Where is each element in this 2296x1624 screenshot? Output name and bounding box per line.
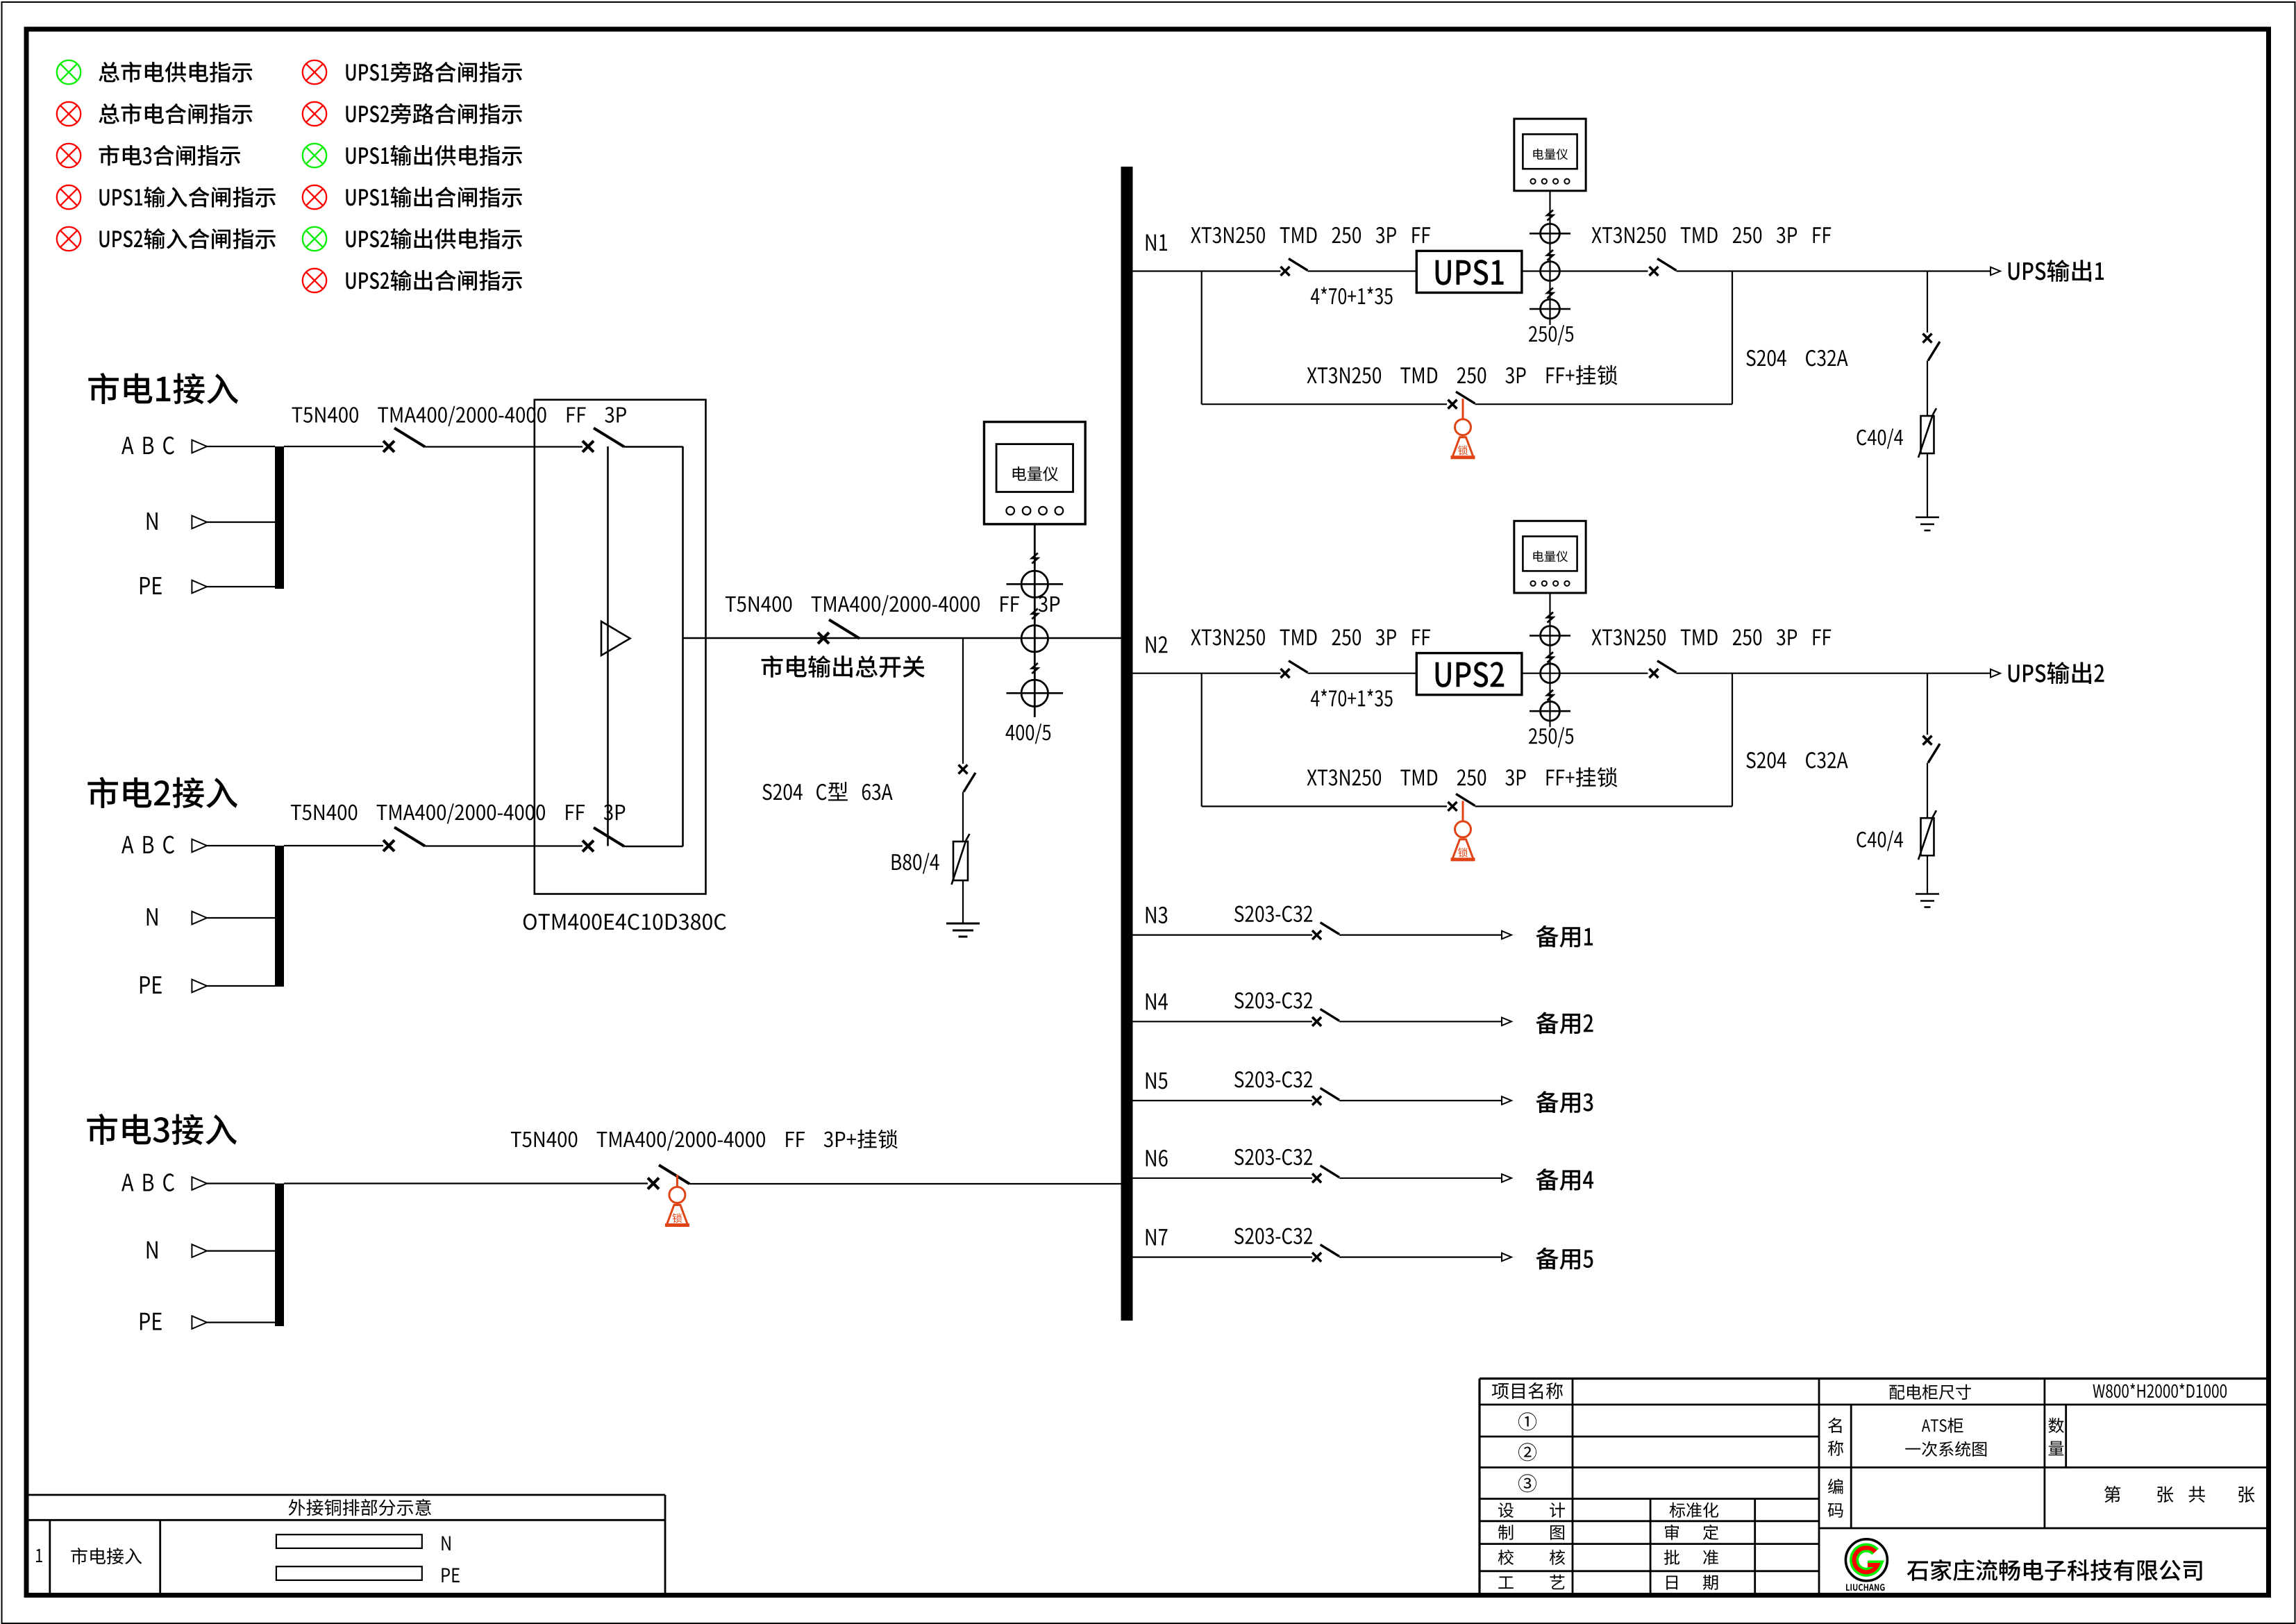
label 一次系统图 [1905, 1441, 1986, 1457]
label N [147, 908, 158, 926]
feeder arrow (N5) [1502, 1096, 1511, 1105]
wire junction to SPD (N1) [1927, 271, 1928, 333]
title 市电3接入 [87, 1114, 237, 1145]
wire N [207, 521, 275, 523]
wire QF3 to main busbar [689, 1183, 1121, 1184]
wire SPD to varistor (N2) [1927, 763, 1928, 819]
label 400/5 [1006, 723, 1051, 744]
feeder arrow (N6) [1502, 1174, 1511, 1182]
SPD breaker (S204 C 63A) [959, 765, 968, 774]
label XT3N250 TMD 250 3P FF (N1 input) [1191, 227, 1430, 244]
wire UPS box to output breaker (N1) [1522, 270, 1648, 271]
label 审定 [1665, 1525, 1679, 1540]
wire output breaker to arrow (N2) [1677, 673, 1992, 674]
padlock symbol (N1 bypass) [1462, 399, 1464, 419]
label N [147, 512, 158, 530]
feeder arrow (N7) [1502, 1253, 1511, 1262]
breaker S203-C32 (N4) [1312, 1017, 1321, 1026]
CT 250/5 bottom (N1) [1541, 299, 1560, 319]
feeder N7 [1146, 1229, 1168, 1246]
breaker S203-C32 (N6) [1312, 1173, 1321, 1182]
CT 400/5 top [1021, 571, 1048, 597]
ATS pole 2 contact (bottom) [583, 841, 594, 852]
wire junction to SPD (N2) [1927, 673, 1928, 735]
title 市电2接入 [87, 777, 237, 808]
bypass wire down (N1) [1201, 271, 1203, 405]
wire busbar to breaker (N4) [1133, 1021, 1313, 1022]
wire A B C [207, 845, 275, 846]
label 配电柜尺寸 [1889, 1384, 1970, 1400]
wire busbar to breaker (N6) [1133, 1178, 1313, 1179]
output breaker (N1) [1650, 267, 1659, 276]
indicator lamp: 市电3合闸指示 [57, 144, 81, 167]
wire UPS box to output breaker (N2) [1522, 673, 1648, 674]
label 备用4 [1536, 1169, 1593, 1191]
indicator lamp: UPS1旁路合闸指示 [303, 60, 326, 84]
label 项目名称 [1492, 1382, 1563, 1399]
indicator lamp: 总市电合闸指示 [57, 102, 81, 126]
wire break marks (N2 CT chain) [1548, 612, 1554, 623]
bypass wire up (N1) [1732, 271, 1733, 405]
label W800*H2000*D1000 [2093, 1383, 2227, 1398]
feeder N6 [1146, 1150, 1168, 1166]
terminal arrows + phase labels 市电2接入 [121, 836, 174, 854]
label S204 C32A (N2) [1746, 752, 1847, 769]
wire N [207, 1250, 275, 1251]
indicator lamp: UPS2输出供电指示 [303, 227, 326, 251]
label T5N400 TMA400/2000-4000 FF 3P+挂锁 (mains3) [511, 1130, 898, 1151]
CT 250/5 middle (N2) [1541, 664, 1560, 683]
label 1 (row number) [36, 1549, 42, 1562]
wire ATS output to main busbar [683, 637, 1121, 639]
varistor B80/4 [953, 842, 968, 880]
wire breaker to arrow (N6) [1339, 1178, 1502, 1179]
title 市电1接入 [88, 373, 238, 404]
ground symbol (N1 SPD) [1916, 517, 1939, 519]
label 制图 [1498, 1525, 1513, 1540]
label T5N400 TMA400/2000-4000 FF 3P (output) [726, 595, 1059, 615]
label B80/4 [892, 853, 939, 873]
label XT3N250 TMD 250 3P FF (N1 output) [1592, 227, 1832, 244]
label C40/4 (N1) [1857, 428, 1903, 449]
ATS common link line [607, 446, 609, 846]
CT 250/5 top (N2) [1541, 626, 1560, 646]
wire busbar to N1 input breaker [1133, 270, 1281, 271]
label 250/5 (N2) [1529, 727, 1573, 747]
input breaker (N1) [1281, 267, 1290, 276]
indicator lamp: UPS1输入合闸指示 [57, 185, 81, 209]
wire breaker to arrow (N4) [1339, 1021, 1502, 1022]
ATS wire bottom stub [624, 846, 683, 848]
meter stem (N1) [1549, 191, 1550, 325]
bypass breaker with padlock (N1) [1448, 400, 1457, 409]
CT 250/5 bottom (N2) [1541, 701, 1560, 721]
wire varistor to ground [962, 880, 964, 923]
label 市电输出总开关 [762, 655, 925, 678]
feeder N5 [1146, 1073, 1168, 1089]
wire SPD to varistor (N1) [1927, 361, 1928, 417]
output arrow (N1) [1991, 267, 2000, 276]
label S204 C32A (N1) [1746, 350, 1847, 367]
SPD breaker S204 C32A (N1) [1923, 334, 1932, 343]
main busbar N [1121, 167, 1133, 1321]
wire mains3 busbar to breaker QF3 [284, 1182, 648, 1184]
ATS pole 1 contact (top) [583, 441, 594, 452]
wire breaker to arrow (N5) [1339, 1100, 1502, 1101]
feeder arrow (N3) [1502, 931, 1511, 939]
label 250/5 (N1) [1529, 325, 1573, 345]
label 名称 [1828, 1418, 1841, 1433]
wire QF1 to ATS [425, 446, 583, 447]
label T5N400 TMA400/2000-4000 FF 3P (mains2) [291, 803, 625, 823]
feeder arrow (N4) [1502, 1018, 1511, 1026]
wire breaker to arrow (N3) [1339, 934, 1502, 935]
CT 400/5 bottom [1021, 680, 1048, 706]
label 校核 [1498, 1550, 1514, 1565]
label 数量 [2048, 1418, 2063, 1433]
wire output breaker to arrow (N1) [1677, 270, 1992, 271]
wire breaker to UPS box (N1) [1308, 270, 1417, 271]
breaker S203-C32 (N7) [1312, 1253, 1321, 1262]
wire varistor to ground (N1) [1927, 453, 1928, 517]
wire PE [207, 586, 275, 587]
wire N [207, 917, 275, 919]
indicator lamp: UPS2输出合闸指示 [303, 269, 326, 292]
breaker QF1 (mains1 input) [383, 441, 394, 452]
label XT3N250 TMD 250 3P FF+挂锁 (N1 bypass) [1307, 365, 1618, 385]
wire busbar to breaker (N7) [1133, 1256, 1313, 1257]
copper bar N [276, 1534, 422, 1548]
indicator lamp: UPS2旁路合闸指示 [303, 102, 326, 126]
input breaker (N2) [1281, 669, 1290, 678]
wire break marks (main CT chain) [1032, 553, 1038, 564]
varistor C40/4 (N1) [1921, 416, 1934, 453]
ATS right link line [682, 446, 684, 846]
label UPS输出2 [2009, 662, 2104, 684]
feeder N3 [1146, 907, 1168, 923]
company logo LIUCHANG [1845, 1539, 1887, 1581]
padlock symbol (N2 bypass) [1462, 801, 1464, 821]
label PE (copper bar) [442, 1568, 459, 1583]
ground symbol (main SPD) [946, 923, 980, 925]
bypass wire down (N2) [1201, 673, 1203, 807]
wire PE [207, 1321, 275, 1323]
UPS box UPS2 [1416, 653, 1522, 695]
label ② [1518, 1443, 1536, 1461]
label UPS输出1 [2009, 260, 2104, 282]
indicator lamp: UPS1输出供电指示 [303, 144, 326, 167]
main output breaker QF0 [818, 633, 829, 644]
label 工艺 [1498, 1577, 1514, 1589]
meter stem (N2) [1549, 593, 1550, 727]
wire break marks (N1 CT chain) [1548, 210, 1554, 221]
power meter 电量仪 (main) [984, 422, 1085, 524]
label N [147, 1241, 158, 1259]
CT 250/5 middle (N1) [1541, 262, 1560, 281]
indicator lamp: 总市电供电指示 [57, 60, 81, 84]
label 石家庄流畅电子科技有限公司 [1907, 1559, 2202, 1581]
bypass wire horizontal (N1) [1202, 403, 1447, 405]
terminal arrows + phase labels 市电1接入 [121, 437, 174, 455]
bypass wire horizontal (N2) [1202, 805, 1447, 807]
label XT3N250 TMD 250 3P FF (N2 input) [1191, 629, 1430, 646]
label 第 张 共 张 [2104, 1486, 2120, 1502]
label N2 [1146, 636, 1168, 653]
ATS transfer switch box OTM400E4C10D380C [535, 400, 706, 894]
copper bar PE [276, 1566, 422, 1580]
bypass breaker with padlock (N2) [1448, 802, 1457, 811]
label 备用5 [1536, 1248, 1593, 1270]
label C40/4 (N2) [1857, 830, 1903, 851]
label 市电接入 [71, 1548, 142, 1564]
label 日期 [1666, 1576, 1677, 1590]
UPS box UPS1 [1416, 251, 1522, 292]
ATS mechanism triangle [601, 621, 630, 655]
indicator lamp: UPS1输出合闸指示 [303, 185, 326, 209]
label XT3N250 TMD 250 3P FF+挂锁 (N2 bypass) [1307, 767, 1618, 787]
label OTM400E4C10D380C [523, 914, 726, 930]
padlock symbol (mains3) [676, 1175, 678, 1187]
input busbar 市电2接入 [275, 846, 284, 987]
label PE [140, 976, 162, 994]
wire busbar to breaker (N5) [1133, 1100, 1313, 1101]
wire mains1 busbar to breaker QF1 [284, 446, 383, 447]
label N1 [1146, 235, 1167, 251]
wire A B C [207, 446, 275, 447]
title block grid [1480, 1378, 2269, 1380]
breaker S203-C32 (N3) [1312, 930, 1321, 939]
varistor C40/4 (N2) [1921, 818, 1934, 855]
label ③ [1518, 1474, 1536, 1492]
indicator lamp: UPS2输入合闸指示 [57, 227, 81, 251]
copper-bar table frame [26, 1494, 665, 1496]
label 外接铜排部分示意 [289, 1499, 431, 1516]
label T5N400 TMA400/2000-4000 FF 3P (mains1) [292, 406, 626, 426]
wire breaker to arrow (N7) [1339, 1256, 1502, 1257]
label XT3N250 TMD 250 3P FF (N2 output) [1592, 629, 1832, 646]
wire junction to SPD (vertical) [962, 638, 964, 764]
label N (copper bar) [442, 1537, 450, 1551]
label 4*70+1*35 (N2) [1311, 689, 1393, 707]
CT 250/5 top (N1) [1541, 224, 1560, 243]
SPD breaker S204 C32A (N2) [1923, 736, 1932, 745]
wire A B C [207, 1182, 275, 1184]
label 备用1 [1536, 926, 1593, 948]
ground symbol (N2 SPD) [1916, 893, 1939, 895]
wire varistor to ground (N2) [1927, 855, 1928, 894]
label 标准化 [1670, 1502, 1719, 1518]
ATS wire top stub [624, 446, 683, 448]
feeder N4 [1146, 994, 1168, 1010]
label 设计 [1498, 1502, 1514, 1518]
wire PE [207, 985, 275, 987]
UPS meter 电量仪 (N1) [1514, 119, 1586, 191]
label ATS柜 [1922, 1418, 1963, 1433]
UPS meter 电量仪 (N2) [1514, 521, 1586, 593]
output arrow (N2) [1991, 669, 2000, 678]
terminal arrows + phase labels 市电3接入 [121, 1173, 174, 1191]
wire SPD breaker to varistor [962, 792, 964, 842]
breaker S203-C32 (N5) [1312, 1096, 1321, 1105]
label 4*70+1*35 (N1) [1311, 287, 1393, 304]
bypass wire up (N2) [1732, 673, 1733, 807]
breaker QF3 (mains3) with padlock [648, 1178, 659, 1189]
input busbar 市电1接入 [275, 446, 284, 589]
label ① [1518, 1412, 1536, 1430]
label 备用3 [1536, 1091, 1593, 1113]
CT 400/5 middle (on main wire) [1021, 626, 1048, 652]
label S204 C型 63A [762, 782, 892, 801]
wire breaker to UPS box (N2) [1308, 673, 1417, 674]
input busbar 市电3接入 [275, 1184, 284, 1327]
label PE [140, 1313, 162, 1330]
meter wire stem (main) [1034, 524, 1036, 717]
label 批准 [1664, 1550, 1679, 1565]
breaker QF2 (mains2 input) [383, 840, 394, 851]
label 编码 [1828, 1479, 1843, 1494]
wire mains2 busbar to breaker QF2 [284, 845, 383, 846]
wire busbar to N2 input breaker [1133, 673, 1281, 674]
label 备用2 [1536, 1012, 1593, 1035]
wire QF2 to ATS [425, 845, 583, 846]
wire busbar to breaker (N3) [1133, 934, 1313, 935]
label PE [140, 577, 162, 594]
output breaker (N2) [1650, 669, 1659, 678]
